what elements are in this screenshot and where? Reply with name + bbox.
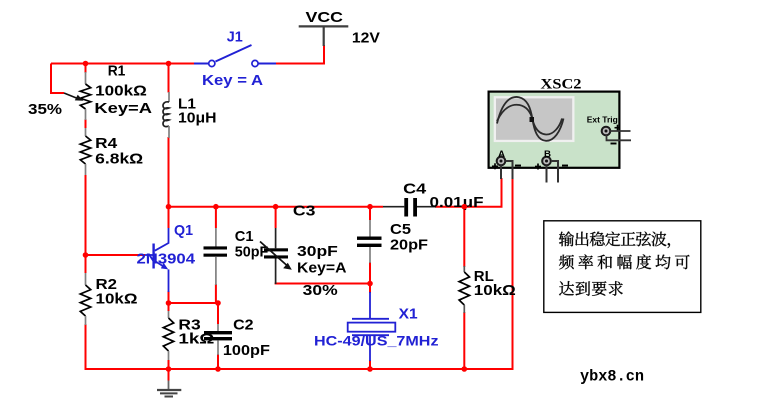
svg-text:35%: 35% (28, 101, 62, 118)
capacitor C2 (204, 324, 232, 355)
trigger marker (530, 117, 535, 122)
junction (218,303) (215, 300, 221, 306)
svg-text:C2: C2 (233, 317, 254, 334)
svg-text:C1: C1 (235, 228, 254, 245)
junction (275.6,206.7) (273, 204, 279, 210)
connector ExtTrig stubs (607, 131, 632, 140)
wire RL bottom (463, 312, 465, 369)
junction (370,206.7) (367, 204, 373, 210)
svg-text:10μH: 10μH (178, 110, 217, 127)
svg-text:Key=A: Key=A (94, 100, 152, 117)
oscilloscope XSC2 body (489, 92, 620, 168)
svg-text:VCC: VCC (306, 9, 344, 26)
wire pot-R4 link (85, 119, 87, 128)
svg-text:R1: R1 (108, 63, 126, 80)
VCC power symbol (299, 9, 349, 46)
junction (168.5,63.5) (166, 61, 172, 67)
wire scope A- down (512, 178, 514, 368)
annotation text line 1 (559, 231, 670, 248)
junction (370,369) (367, 366, 373, 372)
svg-text:X1: X1 (399, 306, 418, 323)
annotation box (544, 221, 701, 313)
svg-text:10kΩ: 10kΩ (474, 282, 516, 299)
svg-text:B: B (544, 149, 552, 159)
capacitor C5 (357, 220, 382, 263)
svg-text:6.8kΩ: 6.8kΩ (95, 151, 143, 168)
svg-text:2N3904: 2N3904 (137, 251, 196, 268)
wire L1 top stub (168, 64, 170, 93)
wire R3 top (168, 303, 170, 311)
svg-text:R4: R4 (95, 135, 118, 152)
svg-text:30pF: 30pF (297, 243, 338, 260)
connector ExtTrig (602, 125, 621, 144)
wire RL top (463, 207, 465, 267)
svg-text:100kΩ: 100kΩ (95, 83, 147, 100)
resistor RL (459, 266, 469, 313)
junction (218,369) (215, 366, 221, 372)
junction (168.5,369) (166, 366, 172, 372)
switch J1 (194, 45, 276, 67)
wire bottom rail (85, 368, 514, 370)
wire R3 bottom (168, 360, 170, 369)
wire C2 bottom (217, 354, 219, 369)
junction (85.5,63.5) (83, 61, 89, 67)
junction (168.5,206.7) (166, 204, 172, 210)
waveform trace 2 (497, 105, 562, 135)
svg-text:30%: 30% (303, 282, 338, 299)
svg-text:0.01μF: 0.01μF (430, 194, 484, 211)
wire pot wiper branch (51, 64, 64, 94)
connector B stubs (547, 161, 559, 183)
wire X1 bottom stub (369, 360, 371, 369)
junction (168.5,303) (166, 300, 172, 306)
wire C1 top (215, 207, 217, 228)
svg-text:Q1: Q1 (174, 222, 193, 239)
svg-text:C4: C4 (403, 181, 427, 198)
junction (464.3,369) (462, 366, 468, 372)
wire left rail top stub (85, 64, 87, 74)
junction (215.9,206.7) (213, 204, 219, 210)
junction (370,283.5) (367, 281, 373, 287)
variable capacitor C3 (260, 228, 292, 284)
svg-text:10kΩ: 10kΩ (96, 291, 138, 308)
wire top-left horizontal node (51, 63, 197, 65)
wire emitter node horizontal (169, 302, 219, 304)
wire left rail mid (85, 175, 87, 273)
wire switch to VCC (275, 45, 324, 64)
inductor L1 (163, 92, 169, 138)
svg-text:Ext Trig: Ext Trig (587, 115, 618, 124)
svg-text:Key = A: Key = A (202, 72, 263, 89)
resistor R4 (80, 128, 90, 175)
annotation text line 3 (559, 281, 623, 296)
svg-text:C3: C3 (293, 203, 316, 220)
ground (157, 369, 181, 397)
svg-text:XSC2: XSC2 (541, 77, 582, 93)
wire C5 bottom (369, 262, 371, 284)
wire C4 to scope A+ (435, 178, 502, 207)
wire collector stub (168, 207, 170, 228)
resistor R3 (163, 311, 173, 360)
wire C1 bottom (215, 284, 217, 303)
transistor Q1 (145, 228, 169, 292)
wire C2 top (217, 303, 219, 324)
wire collector node horizontal (168, 206, 384, 208)
wire X1 top stub (369, 284, 371, 294)
wire base node (86, 254, 146, 256)
svg-text:Key=A: Key=A (297, 260, 347, 277)
wire left rail bottom (85, 324, 87, 369)
crystal X1 (348, 292, 396, 361)
annotation text line 2 (559, 254, 690, 269)
connector A (492, 149, 521, 169)
junction (464.3,206.7) (462, 204, 468, 210)
connector A stubs (501, 161, 513, 179)
svg-text:20pF: 20pF (390, 237, 428, 254)
wire C5 top (369, 207, 371, 220)
svg-text:J1: J1 (227, 29, 243, 46)
junction (85.5,255) (83, 252, 89, 258)
wire C3 top (275, 207, 277, 228)
svg-text:100pF: 100pF (223, 342, 270, 359)
wire emitter stub (168, 291, 170, 303)
waveform trace 1 (497, 97, 564, 141)
svg-text:1kΩ: 1kΩ (178, 331, 214, 348)
wire C3 bottom to C5 node (275, 283, 370, 285)
svg-text:C5: C5 (390, 221, 411, 238)
svg-text:12V: 12V (352, 30, 380, 47)
resistor R2 (80, 273, 90, 325)
svg-text:ybx8.cn: ybx8.cn (580, 368, 644, 386)
svg-text:50pF: 50pF (235, 244, 268, 261)
oscilloscope screen (494, 96, 575, 142)
potentiometer R1 (64, 72, 91, 120)
capacitor C4 (383, 198, 436, 217)
svg-text:HC-49/US_7MHz: HC-49/US_7MHz (314, 333, 439, 349)
capacitor C1 (204, 228, 228, 285)
svg-text:A: A (498, 149, 506, 159)
connector B (535, 149, 568, 170)
wire L1 to collector node (168, 137, 170, 207)
